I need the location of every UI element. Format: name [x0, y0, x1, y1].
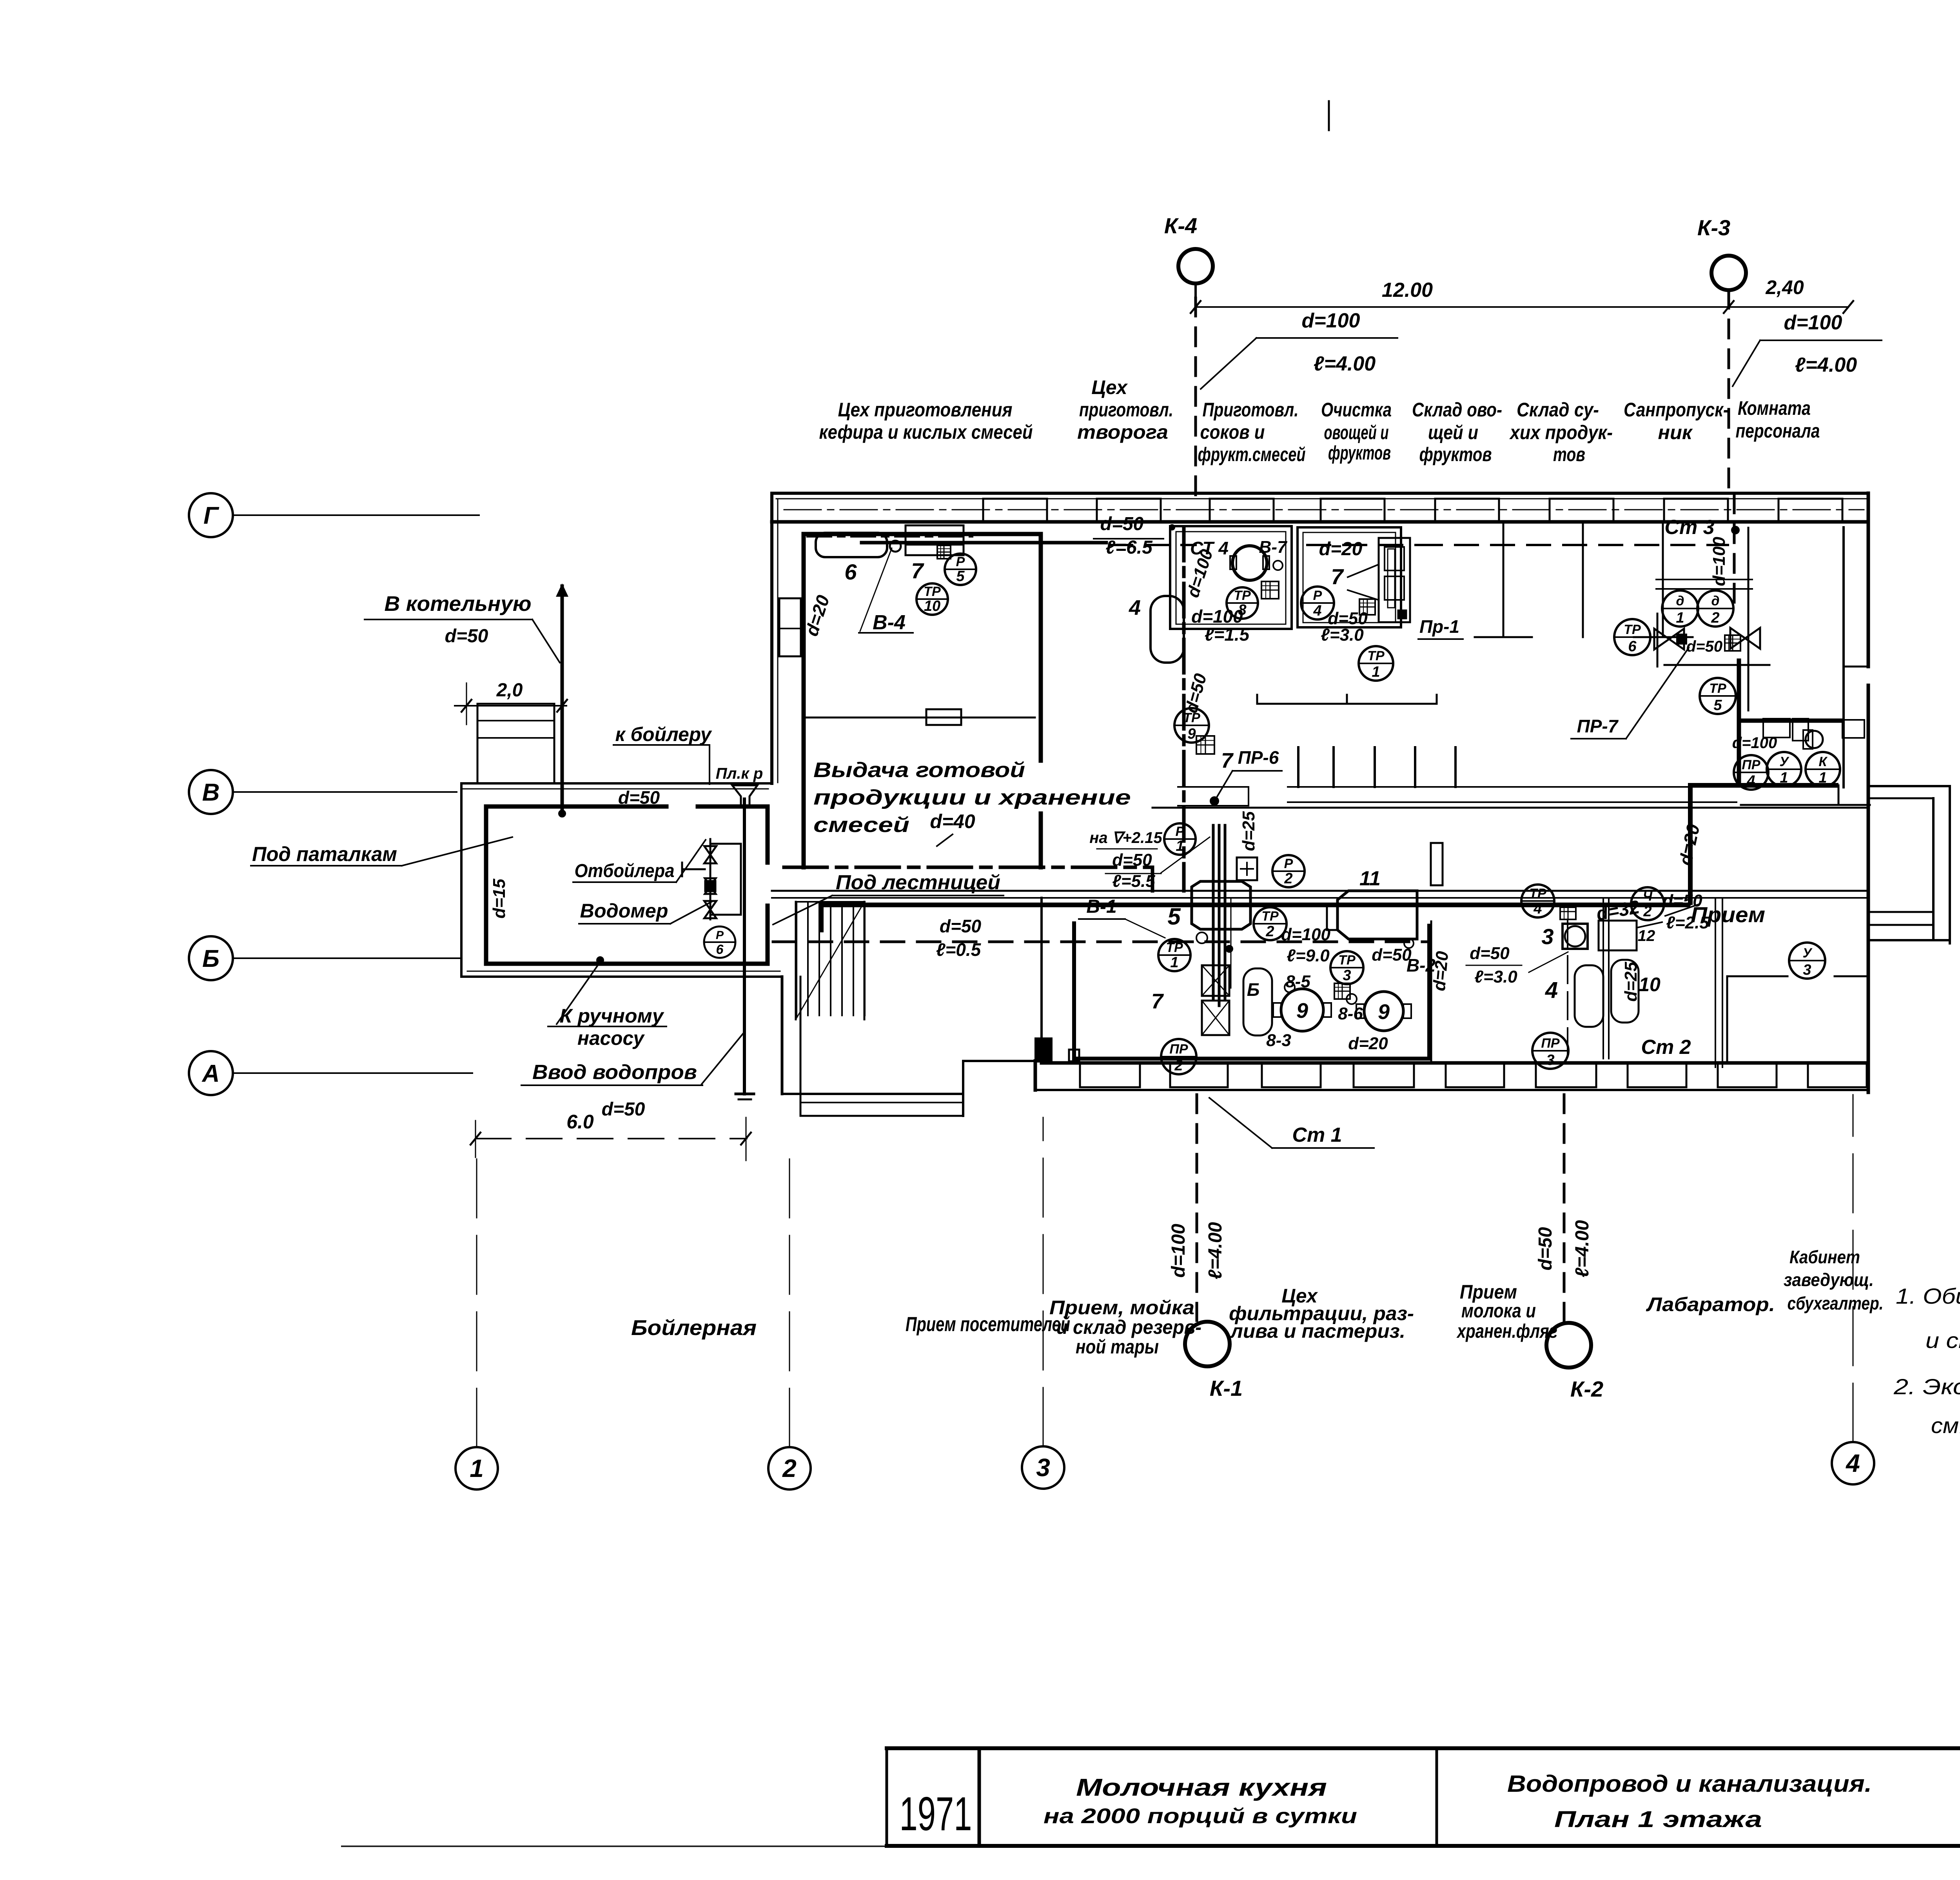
svg-text:ℓ=4.00: ℓ=4.00 — [1572, 1220, 1593, 1278]
svg-text:5: 5 — [1167, 903, 1181, 930]
svg-text:4: 4 — [1545, 977, 1558, 1003]
svg-text:3: 3 — [1541, 924, 1553, 949]
svg-text:2. Экспликацию технологическ: 2. Экспликацию технологического оборудов… — [1893, 1374, 1960, 1399]
svg-text:3: 3 — [1343, 967, 1351, 984]
svg-text:К-1: К-1 — [1210, 1376, 1243, 1400]
svg-text:d=20: d=20 — [1348, 1034, 1388, 1053]
svg-text:7: 7 — [1331, 564, 1344, 589]
svg-text:персонала: персонала — [1736, 420, 1820, 442]
svg-text:d=50: d=50 — [1470, 944, 1510, 963]
svg-text:продукции и хранение: продукции и хранение — [813, 786, 1131, 809]
svg-text:приготовл.: приготовл. — [1079, 399, 1173, 421]
svg-text:12: 12 — [1638, 927, 1655, 945]
svg-text:3: 3 — [1803, 962, 1811, 978]
svg-text:Очистка: Очистка — [1321, 399, 1392, 421]
svg-text:ник: ник — [1658, 421, 1693, 443]
svg-text:3: 3 — [1546, 1052, 1554, 1068]
svg-text:Под лестницей: Под лестницей — [836, 871, 1000, 894]
svg-text:ℓ=3.0: ℓ=3.0 — [1321, 625, 1364, 645]
svg-text:ТР: ТР — [1261, 909, 1279, 924]
svg-text:d=50: d=50 — [618, 787, 660, 808]
svg-text:9: 9 — [1296, 999, 1308, 1023]
svg-text:d=50: d=50 — [1372, 945, 1412, 965]
svg-text:d=15: d=15 — [490, 879, 509, 919]
svg-text:на 2000 порций в сутки: на 2000 порций в сутки — [1044, 1804, 1357, 1828]
svg-text:d=50: d=50 — [1112, 850, 1152, 870]
svg-text:d=20: d=20 — [1319, 539, 1363, 559]
svg-text:4: 4 — [1845, 1449, 1860, 1477]
svg-text:Цех приготовления: Цех приготовления — [838, 399, 1013, 421]
svg-text:d=25: d=25 — [1239, 811, 1258, 851]
svg-text:1: 1 — [1818, 770, 1827, 786]
svg-text:12.00: 12.00 — [1382, 279, 1433, 302]
svg-text:10: 10 — [924, 598, 940, 614]
svg-text:ПР: ПР — [1742, 757, 1760, 772]
svg-text:ТР: ТР — [1624, 622, 1641, 637]
svg-text:d=100: d=100 — [1302, 309, 1360, 332]
svg-text:1: 1 — [1676, 610, 1684, 626]
svg-text:Молочная кухня: Молочная кухня — [1076, 1774, 1327, 1801]
svg-text:хих продук-: хих продук- — [1509, 421, 1613, 443]
svg-text:1: 1 — [1780, 770, 1788, 786]
svg-text:ТР: ТР — [1709, 681, 1726, 696]
svg-text:хранен.фляг: хранен.фляг — [1456, 1320, 1557, 1342]
svg-text:см. черт. ВК-4.: см. черт. ВК-4. — [1931, 1413, 1960, 1438]
svg-text:У: У — [1779, 754, 1789, 769]
svg-text:Санпропуск-: Санпропуск- — [1624, 399, 1729, 421]
svg-text:2,0: 2,0 — [496, 680, 523, 701]
svg-text:d=100: d=100 — [1281, 925, 1331, 944]
svg-text:ℓ=4.00: ℓ=4.00 — [1314, 352, 1376, 375]
svg-text:У: У — [1802, 946, 1813, 961]
svg-text:и спецификацию см. черт. ВК: и спецификацию см. черт. ВК-1 , ВК- 2. — [1926, 1328, 1960, 1353]
svg-text:кефира и кислых смесей: кефира и кислых смесей — [819, 421, 1033, 443]
svg-text:Пр-1: Пр-1 — [1419, 616, 1459, 637]
svg-text:ℓ=5.5: ℓ=5.5 — [1112, 872, 1155, 891]
svg-text:фруктов: фруктов — [1328, 442, 1391, 464]
svg-text:4: 4 — [1129, 596, 1141, 619]
svg-text:ТР: ТР — [1166, 940, 1183, 955]
svg-text:к бойлеру: к бойлеру — [615, 723, 712, 745]
svg-text:6: 6 — [1628, 638, 1637, 655]
svg-text:d=50: d=50 — [1535, 1227, 1556, 1270]
svg-text:Водопровод и канализация.: Водопровод и канализация. — [1507, 1771, 1872, 1797]
svg-text:1: 1 — [470, 1454, 484, 1482]
svg-text:9: 9 — [1187, 726, 1196, 742]
svg-text:В-4: В-4 — [873, 611, 906, 634]
svg-text:Выдача готовой: Выдача готовой — [813, 758, 1025, 782]
svg-text:ℓ=3.0: ℓ=3.0 — [1474, 967, 1517, 986]
svg-text:ℓ=4.00: ℓ=4.00 — [1795, 354, 1857, 376]
svg-text:Прием посетителей: Прием посетителей — [906, 1313, 1070, 1336]
svg-text:d=100: d=100 — [1732, 734, 1777, 752]
svg-text:2: 2 — [1284, 870, 1292, 887]
svg-text:Лабаратор.: Лабаратор. — [1646, 1293, 1775, 1315]
svg-text:Под паталкам: Под паталкам — [252, 843, 397, 866]
svg-text:6: 6 — [844, 559, 857, 584]
svg-text:смесей: смесей — [813, 813, 909, 837]
svg-text:2,40: 2,40 — [1765, 276, 1804, 298]
svg-text:Прием, мойка: Прием, мойка — [1049, 1297, 1194, 1319]
svg-text:А: А — [201, 1060, 220, 1087]
svg-text:1: 1 — [1372, 664, 1380, 680]
svg-text:Водомер: Водомер — [580, 900, 668, 922]
svg-text:ТР: ТР — [924, 584, 941, 599]
svg-text:10: 10 — [1639, 974, 1661, 995]
svg-text:Ввод водопров: Ввод водопров — [532, 1061, 697, 1084]
svg-text:ТР: ТР — [1234, 588, 1251, 603]
svg-text:ТР: ТР — [1183, 710, 1200, 725]
svg-text:К-3: К-3 — [1697, 215, 1730, 240]
svg-text:Б: Б — [202, 945, 220, 972]
svg-text:ПР: ПР — [1169, 1042, 1188, 1057]
svg-text:d=100: d=100 — [1784, 311, 1842, 334]
svg-text:Ст 1: Ст 1 — [1292, 1124, 1342, 1146]
svg-text:Ст 2: Ст 2 — [1641, 1036, 1691, 1059]
svg-text:соков и: соков и — [1200, 421, 1265, 443]
svg-text:4: 4 — [1313, 603, 1321, 619]
svg-text:d=50: d=50 — [1686, 638, 1722, 655]
svg-text:5: 5 — [1713, 697, 1722, 714]
svg-text:3: 3 — [1036, 1453, 1050, 1482]
svg-text:ℓ=6.5: ℓ=6.5 — [1105, 537, 1153, 558]
svg-text:насосу: насосу — [577, 1027, 645, 1049]
svg-text:d=50: d=50 — [602, 1099, 645, 1120]
svg-text:В-7: В-7 — [1259, 538, 1288, 557]
svg-text:4: 4 — [1746, 773, 1755, 789]
svg-text:d=50: d=50 — [445, 626, 488, 647]
svg-text:и склад резерв-: и склад резерв- — [1056, 1316, 1201, 1338]
svg-text:1: 1 — [1170, 954, 1178, 971]
svg-text:7: 7 — [911, 558, 924, 583]
svg-text:молока и: молока и — [1461, 1300, 1536, 1322]
svg-text:ℓ=0.5: ℓ=0.5 — [936, 939, 982, 960]
svg-text:Р: Р — [1284, 856, 1293, 871]
svg-text:тов: тов — [1553, 443, 1585, 465]
svg-text:К ручному: К ручному — [560, 1005, 664, 1027]
svg-text:8-6: 8-6 — [1338, 1004, 1363, 1023]
svg-text:ТР: ТР — [1367, 648, 1385, 663]
svg-text:d=40: d=40 — [930, 810, 975, 832]
svg-text:заведующ.: заведующ. — [1784, 1270, 1874, 1290]
svg-text:Комната: Комната — [1738, 397, 1811, 419]
svg-text:d=20: d=20 — [1430, 950, 1452, 992]
svg-text:1971: 1971 — [900, 1787, 972, 1840]
svg-text:ПР-7: ПР-7 — [1577, 716, 1619, 736]
svg-text:лива и пастериз.: лива и пастериз. — [1230, 1320, 1405, 1342]
svg-text:2: 2 — [782, 1454, 797, 1482]
svg-text:1: 1 — [1176, 838, 1184, 854]
svg-text:2: 2 — [1711, 610, 1719, 626]
svg-text:Цех: Цех — [1091, 376, 1128, 398]
svg-text:Приготовл.: Приготовл. — [1203, 399, 1299, 421]
svg-text:Отбойлера: Отбойлера — [575, 861, 675, 881]
svg-text:7: 7 — [1221, 749, 1234, 772]
svg-text:Склад ово-: Склад ово- — [1412, 399, 1502, 421]
svg-text:Р: Р — [716, 929, 724, 942]
svg-text:фруктов: фруктов — [1419, 443, 1492, 465]
svg-text:План 1 этажа: План 1 этажа — [1554, 1807, 1762, 1832]
svg-text:8-3: 8-3 — [1266, 1031, 1291, 1050]
svg-text:Р: Р — [1313, 588, 1322, 603]
svg-text:Ч: Ч — [1643, 889, 1653, 904]
svg-text:Г: Г — [203, 502, 220, 529]
svg-text:В: В — [202, 779, 220, 806]
svg-text:творога: творога — [1077, 421, 1168, 443]
svg-text:ТР: ТР — [1338, 953, 1356, 968]
svg-text:д: д — [1711, 594, 1719, 609]
svg-text:5: 5 — [956, 568, 965, 585]
svg-text:d=50: d=50 — [1100, 514, 1144, 534]
svg-text:Склад су-: Склад су- — [1517, 399, 1599, 421]
svg-text:К-4: К-4 — [1164, 213, 1197, 238]
svg-text:6: 6 — [716, 942, 724, 957]
svg-text:ПР: ПР — [1541, 1036, 1559, 1051]
svg-text:Бойлерная: Бойлерная — [631, 1315, 757, 1340]
svg-text:Р: Р — [1176, 824, 1185, 839]
svg-text:ной тары: ной тары — [1076, 1336, 1159, 1358]
svg-text:К: К — [1819, 754, 1828, 769]
svg-text:9: 9 — [1378, 1000, 1390, 1024]
svg-text:1. Общие данные по марке ВК: 1. Общие данные по марке ВК, условные об… — [1896, 1284, 1960, 1308]
svg-text:ПР-6: ПР-6 — [1238, 747, 1279, 768]
svg-text:6.0: 6.0 — [566, 1111, 594, 1133]
svg-text:К-2: К-2 — [1570, 1377, 1603, 1401]
svg-text:7: 7 — [1151, 990, 1164, 1013]
svg-text:Прием: Прием — [1691, 902, 1765, 927]
svg-text:ТР: ТР — [1529, 886, 1546, 901]
svg-text:d=100: d=100 — [1168, 1224, 1189, 1278]
svg-text:8: 8 — [1238, 602, 1247, 618]
svg-text:Р: Р — [956, 554, 965, 569]
svg-text:d=50: d=50 — [940, 916, 982, 936]
svg-text:овощей и: овощей и — [1324, 421, 1389, 443]
svg-text:2: 2 — [1174, 1057, 1183, 1074]
svg-text:2: 2 — [1265, 923, 1274, 940]
svg-text:ℓ=4.00: ℓ=4.00 — [1205, 1222, 1226, 1280]
svg-text:фрукт.смесей: фрукт.смесей — [1198, 443, 1306, 465]
svg-text:Пл.к р: Пл.к р — [716, 765, 763, 782]
svg-text:ℓ=1.5: ℓ=1.5 — [1205, 624, 1250, 645]
svg-text:Кабинет: Кабинет — [1789, 1247, 1860, 1267]
svg-text:В-1: В-1 — [1086, 896, 1116, 917]
svg-text:2: 2 — [1643, 903, 1651, 920]
svg-text:В котельную: В котельную — [385, 592, 532, 616]
svg-text:д: д — [1676, 594, 1684, 609]
svg-text:сбухгалтер.: сбухгалтер. — [1788, 1293, 1884, 1313]
svg-text:4: 4 — [1533, 901, 1542, 917]
svg-text:ℓ=9.0: ℓ=9.0 — [1287, 946, 1330, 965]
svg-text:Ст 3: Ст 3 — [1664, 516, 1714, 539]
svg-text:щей и: щей и — [1428, 421, 1478, 443]
svg-text:Б: Б — [1247, 979, 1260, 1000]
svg-text:на ∇+2.15: на ∇+2.15 — [1089, 829, 1162, 846]
svg-text:11: 11 — [1359, 867, 1381, 890]
